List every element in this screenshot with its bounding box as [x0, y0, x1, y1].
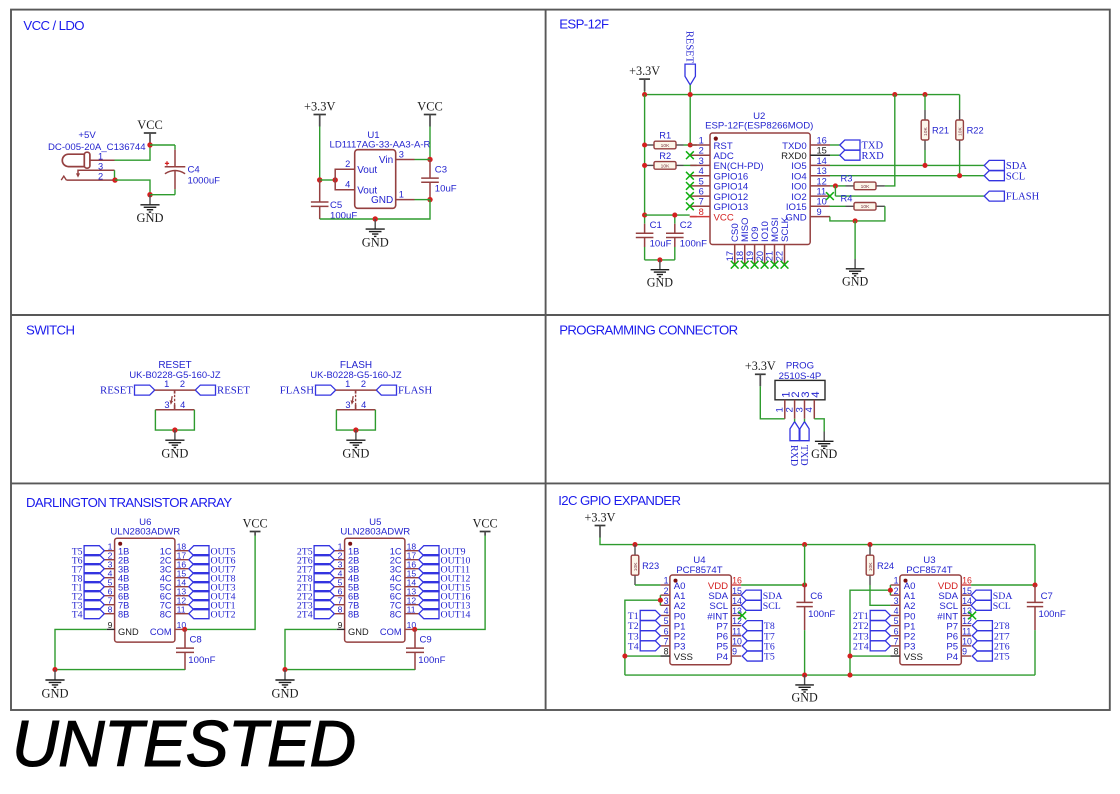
- junction: [282, 667, 287, 672]
- no-connect X on left pin at y=185.9: [686, 182, 694, 190]
- svg-text:GND: GND: [118, 627, 139, 637]
- net flag T3: [640, 631, 660, 641]
- power symbol +3.3V I2C: [595, 526, 606, 538]
- wire: [684, 164, 697, 166]
- svg-text:VCC: VCC: [243, 516, 268, 530]
- svg-text:2: 2: [664, 586, 669, 596]
- svg-text:R22: R22: [967, 126, 984, 136]
- junction: [892, 92, 897, 97]
- resistor R21 10K: [921, 120, 929, 140]
- junction: [317, 177, 322, 182]
- U3 pin 16 VDD: [961, 584, 971, 586]
- U5 pin 15 4C: [405, 577, 419, 579]
- net flag T8: [742, 621, 762, 631]
- no-connect X on left pin at y=196.1: [686, 192, 694, 200]
- svg-text:15: 15: [962, 586, 972, 596]
- svg-text:ULN2803ADWR: ULN2803ADWR: [340, 527, 410, 538]
- U3 pin 11 P6: [961, 635, 971, 637]
- svg-text:GND: GND: [371, 195, 393, 206]
- svg-text:14: 14: [817, 156, 827, 166]
- wire: [971, 584, 1035, 586]
- no-connect X on IO2: [826, 192, 834, 200]
- capacitor C9 body: [406, 629, 424, 670]
- U2 pin 8 VCC: [690, 216, 710, 218]
- svg-text:UK-B0228-G5-160-JZ: UK-B0228-G5-160-JZ: [310, 369, 401, 380]
- U5 pin 11 8C: [405, 613, 419, 615]
- svg-text:C8: C8: [190, 635, 202, 646]
- svg-text:100uF: 100uF: [330, 210, 357, 221]
- power symbol +3.3V: [314, 115, 326, 127]
- svg-text:10K: 10K: [861, 204, 870, 210]
- wire: [830, 154, 840, 156]
- svg-text:10K: 10K: [661, 143, 670, 149]
- wire: [885, 95, 895, 186]
- U2 pin 1 RST: [690, 144, 710, 146]
- svg-text:3: 3: [164, 400, 169, 410]
- svg-text:VCC: VCC: [417, 99, 442, 113]
- junction: [802, 542, 807, 547]
- P1 pin 3: [804, 400, 806, 419]
- net flag OUT10: [419, 555, 439, 565]
- U2 pin 12 IO0: [810, 185, 830, 187]
- svg-text:R1: R1: [659, 131, 671, 141]
- net flag OUT14: [419, 609, 439, 619]
- U5 pin 13 6C: [405, 595, 419, 597]
- wire: [114, 170, 116, 180]
- resistor R2 leads: [645, 164, 654, 166]
- svg-text:RXD: RXD: [788, 445, 799, 466]
- switch FLASH actuator: [351, 390, 356, 410]
- junction: [688, 92, 693, 97]
- U6 pin 15 4C: [175, 577, 189, 579]
- wire: [285, 669, 415, 671]
- U6 pin 12 7C: [175, 604, 189, 606]
- svg-text:1: 1: [664, 576, 669, 586]
- U6 pin 8 8B: [104, 613, 114, 615]
- svg-text:GND: GND: [647, 276, 673, 290]
- wire: [415, 536, 485, 630]
- svg-text:R23: R23: [642, 561, 659, 571]
- U3 pin 8 VSS: [890, 655, 900, 657]
- resistor R22 leads: [959, 110, 961, 120]
- barrel jack J1 DC-005 symbol: [62, 152, 90, 168]
- net flag 2T4: [314, 609, 334, 619]
- U6 pin 2 2B: [104, 559, 114, 561]
- wire: [415, 159, 431, 161]
- net flag SCL: [984, 171, 1004, 181]
- ground PROG: [815, 432, 834, 449]
- wire: [635, 584, 660, 586]
- svg-text:OUT14: OUT14: [441, 609, 471, 620]
- U5 pin 17 2C: [405, 559, 419, 561]
- U6 pin 18 1C: [175, 550, 189, 552]
- power symbol VCC out: [424, 115, 436, 127]
- svg-text:1: 1: [399, 189, 404, 199]
- svg-text:2: 2: [98, 172, 103, 182]
- net flag OUT2: [189, 609, 209, 619]
- svg-text:P4: P4: [716, 652, 728, 663]
- svg-text:2: 2: [361, 379, 366, 389]
- resistor R24 leads: [869, 545, 871, 556]
- ground: [366, 219, 385, 236]
- IC U5 body: [345, 538, 405, 642]
- net flag 2T1: [870, 610, 890, 620]
- junction: [833, 183, 838, 188]
- wire: [320, 200, 430, 219]
- svg-text:11: 11: [962, 626, 971, 636]
- svg-text:GND: GND: [272, 686, 299, 700]
- net flag T5: [84, 546, 104, 556]
- svg-text:COM: COM: [150, 627, 172, 637]
- svg-text:+3.3V: +3.3V: [585, 510, 616, 524]
- svg-text:GND: GND: [348, 627, 369, 637]
- svg-text:RXD: RXD: [862, 151, 885, 162]
- svg-text:GND: GND: [161, 446, 188, 460]
- svg-text:SWITCH: SWITCH: [26, 322, 74, 337]
- svg-text:4: 4: [345, 180, 350, 190]
- junction: [658, 598, 663, 603]
- wire: [55, 629, 107, 669]
- net flag 2T7: [314, 564, 334, 574]
- U3 pin 12 P7: [961, 625, 971, 627]
- svg-text:100nF: 100nF: [188, 655, 215, 666]
- svg-text:DARLINGTON TRANSISTOR ARRAY: DARLINGTON TRANSISTOR ARRAY: [26, 495, 232, 510]
- ground under FLASH: [346, 430, 365, 447]
- svg-text:8: 8: [338, 604, 343, 614]
- svg-text:GND: GND: [811, 447, 837, 461]
- IC U1 body: [355, 150, 396, 209]
- junction: [922, 92, 927, 97]
- U6 pin 16 3C: [175, 568, 189, 570]
- U4 pin 5 P1: [660, 625, 670, 627]
- svg-text:TXD: TXD: [798, 445, 809, 466]
- svg-text:11: 11: [817, 187, 827, 197]
- svg-text:I2C GPIO EXPANDER: I2C GPIO EXPANDER: [558, 493, 680, 508]
- U5 pin 4 4B: [334, 577, 344, 579]
- wire: [804, 419, 806, 422]
- svg-text:COM: COM: [380, 627, 402, 637]
- svg-text:10: 10: [817, 197, 827, 207]
- U3 pin 9 P4: [961, 655, 971, 657]
- resistor R4 10K: [854, 203, 876, 211]
- wire: [835, 195, 984, 197]
- P1 pin 1: [784, 400, 786, 419]
- svg-text:+3.3V: +3.3V: [304, 99, 335, 113]
- net flag T3: [84, 600, 104, 610]
- net flag FLASH right: [376, 385, 396, 395]
- junction: [172, 427, 177, 432]
- power symbol VCC U5: [480, 532, 491, 536]
- wire: [855, 206, 885, 221]
- wire: [830, 205, 846, 207]
- wire: [625, 655, 661, 657]
- svg-text:FLASH: FLASH: [280, 385, 314, 397]
- wire: [645, 94, 960, 96]
- capacitor C1 body: [644, 215, 646, 224]
- ground U6: [45, 670, 64, 687]
- resistor R22 10K: [956, 120, 964, 140]
- svg-text:11: 11: [732, 626, 741, 636]
- wire: [760, 386, 785, 419]
- capacitor C2 body: [674, 215, 676, 224]
- IC U2 body ESP-12F: [710, 133, 810, 245]
- svg-text:8: 8: [108, 604, 113, 614]
- junction: [632, 542, 637, 547]
- svg-text:PROGRAMMING CONNECTOR: PROGRAMMING CONNECTOR: [559, 322, 737, 337]
- U5 pin 8 8B: [334, 613, 344, 615]
- U6 pin 17 2C: [175, 559, 189, 561]
- U3 pin 2 A1: [890, 594, 900, 596]
- U4 pin 12 P7: [731, 625, 741, 627]
- wire: [55, 669, 185, 671]
- junction: [642, 92, 647, 97]
- net flag T5: [742, 651, 762, 661]
- svg-text:9: 9: [338, 620, 343, 630]
- svg-text:1: 1: [699, 135, 704, 145]
- ground under RESET: [165, 430, 184, 447]
- junction: [867, 542, 872, 547]
- ground I2C: [795, 675, 814, 692]
- junction: [353, 427, 358, 432]
- U2 pin 18 MISO (bottom): [744, 245, 746, 265]
- svg-text:OUT2: OUT2: [211, 609, 236, 620]
- svg-text:8: 8: [699, 207, 704, 217]
- net flag T4: [640, 641, 660, 651]
- no-connect X pin 19: [751, 261, 759, 269]
- svg-text:R4: R4: [841, 194, 853, 204]
- svg-text:8C: 8C: [390, 609, 402, 619]
- svg-text:10uF: 10uF: [650, 239, 672, 250]
- U2 pin 16 TXD0: [810, 144, 830, 146]
- svg-text:R2: R2: [659, 151, 671, 161]
- svg-text:8C: 8C: [160, 609, 172, 619]
- U4 pin 3 A2: [660, 604, 670, 606]
- svg-text:VCC: VCC: [473, 516, 498, 530]
- net flag OUT9: [419, 546, 439, 556]
- wire: [870, 585, 890, 605]
- U5 pin 7 7B: [334, 604, 344, 606]
- net flag T1: [640, 610, 660, 620]
- U3 pin 5 P1: [890, 625, 900, 627]
- wire: [150, 144, 175, 146]
- svg-text:3: 3: [699, 156, 704, 166]
- net flag 2T3: [870, 631, 890, 641]
- net flag TXD: [840, 140, 860, 150]
- net flag OUT15: [419, 582, 439, 592]
- svg-text:RESET: RESET: [683, 31, 694, 64]
- net flag OUT5: [189, 546, 209, 556]
- resistor R3 10K: [854, 182, 876, 190]
- svg-text:10K: 10K: [868, 562, 874, 571]
- ground ESP: [846, 259, 865, 276]
- junction: [657, 257, 662, 262]
- wire: [959, 95, 961, 110]
- net flag 2T3: [314, 600, 334, 610]
- svg-text:10K: 10K: [958, 127, 964, 136]
- junction: [112, 177, 117, 182]
- svg-text:SCL: SCL: [763, 601, 781, 612]
- svg-text:P4: P4: [946, 652, 958, 663]
- svg-text:C5: C5: [330, 200, 342, 211]
- svg-text:VSS: VSS: [904, 652, 923, 663]
- wire: [185, 536, 255, 630]
- U4 pin 11 P6: [731, 635, 741, 637]
- svg-text:5: 5: [894, 616, 899, 626]
- svg-text:T5: T5: [764, 652, 775, 663]
- svg-text:17: 17: [725, 251, 735, 261]
- svg-text:VSS: VSS: [674, 652, 693, 663]
- wire: [115, 145, 151, 160]
- svg-text:T4: T4: [628, 642, 639, 653]
- net flag T7: [84, 564, 104, 574]
- junction: [373, 216, 378, 221]
- svg-text:9: 9: [817, 207, 822, 217]
- svg-text:RESET: RESET: [100, 385, 133, 397]
- svg-text:C6: C6: [810, 591, 822, 602]
- wire: [645, 214, 690, 216]
- wire: [285, 629, 337, 669]
- svg-text:C7: C7: [1041, 591, 1053, 602]
- U5 pin 14 5C: [405, 586, 419, 588]
- net flag OUT13: [419, 600, 439, 610]
- svg-text:Vout: Vout: [357, 165, 377, 176]
- resistor R23 leads: [634, 545, 636, 556]
- wire: [850, 585, 890, 675]
- U3 pin 3 A2: [890, 604, 900, 606]
- wire U3 A1 jog: [889, 590, 891, 595]
- resistor R3 leads: [846, 185, 855, 187]
- svg-text:10K: 10K: [633, 562, 639, 571]
- junction: [52, 667, 57, 672]
- switch FLASH bottom contacts pins 3 4: [336, 409, 375, 411]
- wire: [850, 655, 890, 657]
- wire: [830, 144, 840, 146]
- net flag RESET left: [135, 385, 155, 395]
- wire: [830, 175, 984, 177]
- junction: [847, 673, 852, 678]
- no-connect X pin 20: [761, 261, 769, 269]
- net flag OUT4: [189, 591, 209, 601]
- svg-text:15: 15: [817, 146, 827, 156]
- P1 pin 4: [813, 400, 815, 419]
- U2 pin 2 ADC: [690, 154, 710, 156]
- wire: [830, 164, 984, 166]
- svg-text:1: 1: [894, 576, 899, 586]
- wire: [830, 217, 855, 221]
- wire: [415, 199, 431, 201]
- junction: [642, 213, 647, 218]
- U1 pin 1 GND: [396, 199, 415, 201]
- power symbol VCC U6: [250, 532, 261, 536]
- net flag T2: [640, 621, 660, 631]
- svg-text:2T5: 2T5: [994, 652, 1010, 663]
- P1 pin 2: [794, 400, 796, 419]
- U3 pin 6 P2: [890, 635, 900, 637]
- svg-text:SCL: SCL: [1006, 171, 1025, 182]
- wire: [1034, 545, 1036, 585]
- wire: [155, 410, 194, 430]
- junction: [147, 192, 152, 197]
- svg-text:1: 1: [345, 379, 350, 389]
- svg-text:T4: T4: [72, 609, 83, 620]
- U4 pin 2 A1: [660, 594, 670, 596]
- svg-text:1000uF: 1000uF: [188, 176, 221, 187]
- U4 pin 7 P3: [660, 645, 670, 647]
- U5 pin 9 GND: [337, 628, 345, 630]
- net flag OUT1: [189, 600, 209, 610]
- resistor R1 10K: [654, 141, 676, 149]
- capacitor C7 body: [1034, 630, 1036, 675]
- svg-text:Vin: Vin: [379, 155, 393, 166]
- junction: [622, 654, 627, 659]
- U2 pin 9 GND: [810, 216, 830, 218]
- svg-text:9: 9: [108, 620, 113, 630]
- U2 pin 14 IO5: [810, 164, 830, 166]
- U2 pin 15 RXD0: [810, 154, 830, 156]
- wire: [429, 127, 431, 160]
- resistor R24 10K: [866, 555, 874, 575]
- IC U3 body: [900, 575, 961, 665]
- svg-text:10K: 10K: [661, 163, 670, 169]
- net flag 2T2: [870, 621, 890, 631]
- svg-text:7: 7: [699, 197, 704, 207]
- U6 pin 1 1B: [104, 550, 114, 552]
- svg-text:VCC / LDO: VCC / LDO: [23, 18, 84, 33]
- U2 pin 11 IO2: [810, 195, 830, 197]
- junction: [957, 173, 962, 178]
- switch RESET top contacts pins 1 2: [155, 389, 196, 391]
- no-connect X U4 #INT: [738, 612, 746, 620]
- net flag 2T1: [314, 582, 334, 592]
- svg-text:100nF: 100nF: [808, 609, 835, 620]
- svg-text:4: 4: [180, 400, 185, 410]
- junction: [853, 218, 858, 223]
- svg-text:GND: GND: [842, 275, 868, 289]
- resistor R23 10K: [631, 555, 639, 575]
- svg-text:9: 9: [962, 647, 967, 657]
- U3 pin 1 A0: [890, 584, 900, 586]
- svg-text:GND: GND: [137, 211, 164, 225]
- svg-text:4: 4: [699, 166, 704, 176]
- svg-text:LD1117AG-33-AA3-A-R: LD1117AG-33-AA3-A-R: [330, 140, 431, 151]
- U5 pin 2 2B: [334, 559, 344, 561]
- svg-text:100nF: 100nF: [418, 655, 445, 666]
- junction: [412, 627, 417, 632]
- net flag T6: [84, 555, 104, 565]
- U1 pin 3 Vin: [396, 159, 415, 161]
- U2 pin 20 IO10 (bottom): [764, 245, 766, 265]
- net flag OUT7: [189, 564, 209, 574]
- wire: [319, 127, 321, 181]
- svg-text:3: 3: [399, 149, 404, 159]
- net flag T2: [84, 591, 104, 601]
- net flag SCL U4: [741, 600, 761, 610]
- U5 pin 3 3B: [334, 568, 344, 570]
- svg-text:16: 16: [732, 576, 742, 586]
- net flag OUT3: [189, 582, 209, 592]
- wire: [645, 259, 675, 261]
- net flag SDA U3: [971, 590, 991, 600]
- wire: [336, 410, 375, 430]
- svg-text:GND: GND: [42, 686, 69, 700]
- U2 pin 6 GPIO12: [690, 195, 710, 197]
- U4 pin 16 VDD: [731, 584, 741, 586]
- svg-text:6: 6: [699, 187, 704, 197]
- svg-text:4: 4: [894, 606, 899, 616]
- net flag T1: [84, 582, 104, 592]
- junction: [847, 654, 852, 659]
- junction: [427, 157, 432, 162]
